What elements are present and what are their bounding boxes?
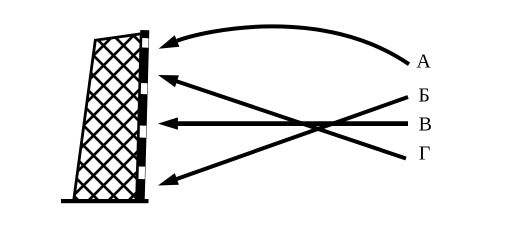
svg-text:Б: Б bbox=[418, 85, 429, 107]
horizontal arrow V (label В) bbox=[175, 121, 408, 126]
wall edge bar with dashes bbox=[136, 30, 150, 200]
arrow from G (label Г) to top bbox=[173, 80, 406, 158]
arrow from B (label Б) to bottom bbox=[173, 97, 408, 180]
ground bbox=[61, 199, 149, 203]
wall (hatched trapezoid) bbox=[74, 34, 142, 201]
svg-text:А: А bbox=[416, 51, 431, 73]
svg-text:Г: Г bbox=[419, 143, 431, 165]
curved arrow A bbox=[177, 26, 409, 64]
svg-text:В: В bbox=[419, 114, 432, 136]
